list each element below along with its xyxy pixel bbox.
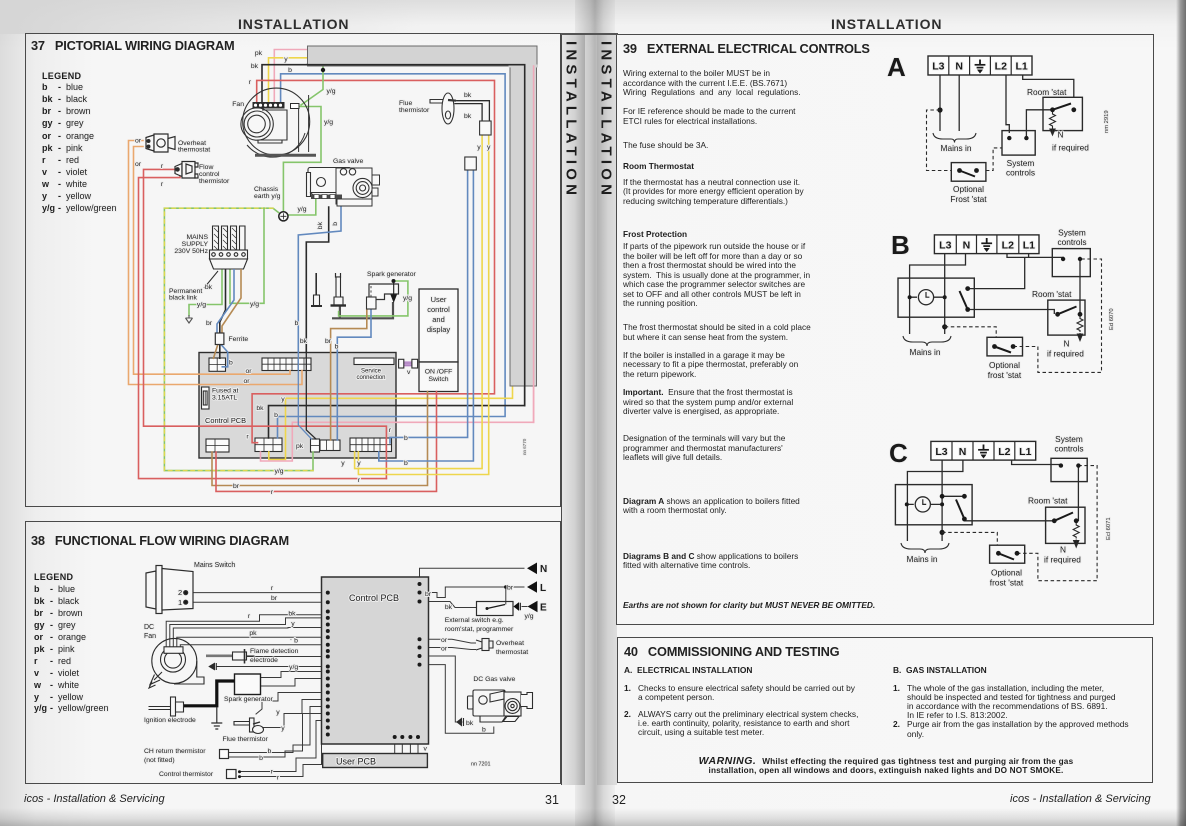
labels C xyxy=(907,434,1112,588)
svg-text:L: L xyxy=(540,583,546,594)
svg-text:bk: bk xyxy=(464,92,472,99)
svg-text:b: b xyxy=(34,584,40,594)
svg-text:-: - xyxy=(50,584,53,594)
svg-text:blue: blue xyxy=(66,82,83,92)
svg-text:y: y xyxy=(42,191,47,201)
svg-text:-: - xyxy=(58,82,61,92)
connector box yellow pair xyxy=(480,121,492,135)
wire r flow 2 xyxy=(139,173,387,479)
headers xyxy=(238,16,349,32)
svg-text:controls: controls xyxy=(1054,443,1083,453)
svg-text:v: v xyxy=(407,369,411,376)
wire spark out 1 xyxy=(261,672,328,678)
svg-text:w: w xyxy=(33,680,42,690)
wire switch to roomstat xyxy=(968,310,1055,315)
svg-text:-: - xyxy=(50,596,53,606)
svg-text:Optional: Optional xyxy=(953,184,984,194)
svg-text:bk: bk xyxy=(288,611,296,618)
wire b pair box2 xyxy=(390,170,468,443)
wire yg plug left to earth xyxy=(189,269,222,315)
svg-text:L3: L3 xyxy=(939,239,951,251)
svg-text:Mains Switch: Mains Switch xyxy=(194,562,235,569)
wire L3 down xyxy=(944,254,946,334)
permanent black link pointer xyxy=(204,271,218,288)
svg-text:Mains in: Mains in xyxy=(941,143,972,153)
svg-text:or: or xyxy=(34,632,43,642)
wire bk loop right xyxy=(269,66,525,438)
svg-text:N: N xyxy=(1064,339,1070,349)
svg-text:Switch: Switch xyxy=(428,376,448,383)
control thermistor 38 xyxy=(227,770,237,779)
gutter shadow between pages xyxy=(575,0,615,826)
svg-text:control: control xyxy=(199,171,220,178)
svg-text:pk: pk xyxy=(249,630,257,637)
connector c-top-left xyxy=(209,358,226,371)
svg-text:gy: gy xyxy=(42,118,53,128)
svg-text:L2: L2 xyxy=(995,61,1007,73)
dashed frost wires C xyxy=(942,466,1097,581)
wire L2 L1 stub xyxy=(1007,254,1029,258)
earth arrow left xyxy=(186,315,193,323)
svg-text:black: black xyxy=(66,94,88,104)
svg-text:or: or xyxy=(245,368,252,375)
connector c1 xyxy=(206,439,229,452)
svg-text:External switch e.g.: External switch e.g. xyxy=(445,617,504,624)
wire L3 down C xyxy=(941,460,943,541)
wire N left loop C xyxy=(907,460,963,541)
svg-text:b: b xyxy=(42,82,48,92)
svg-text:bk: bk xyxy=(464,113,472,120)
svg-text:L1: L1 xyxy=(1023,239,1035,251)
svg-text:-: - xyxy=(50,703,53,713)
svg-text:2: 2 xyxy=(178,588,182,597)
mains brace A xyxy=(933,133,976,143)
svg-text:B: B xyxy=(891,230,910,260)
ignition electrode A xyxy=(311,273,322,306)
wire r mains 2 xyxy=(187,592,328,594)
svg-text:Flue: Flue xyxy=(399,100,412,107)
wire or 2 xyxy=(420,648,477,650)
svg-text:Ed 6070: Ed 6070 xyxy=(1109,308,1115,330)
svg-text:y/g: y/g xyxy=(327,88,336,95)
wire br spark down xyxy=(331,309,367,440)
wire or 1 xyxy=(420,639,477,643)
flue thermistor 37 xyxy=(430,93,456,124)
svg-text:red: red xyxy=(66,155,79,165)
svg-text:System: System xyxy=(1007,158,1035,168)
wire br bottom loop xyxy=(212,392,428,486)
svg-text:b: b xyxy=(335,344,339,351)
wire b pcb inner xyxy=(298,352,311,439)
svg-text:nm 2919: nm 2919 xyxy=(1104,110,1110,133)
wire b fan xyxy=(180,645,327,648)
svg-text:y/g: y/g xyxy=(274,468,283,475)
svg-text:b: b xyxy=(259,755,263,762)
svg-text:y: y xyxy=(281,725,285,732)
svg-text:Optional: Optional xyxy=(991,568,1022,578)
svg-text:or: or xyxy=(135,161,142,168)
system controls box A xyxy=(1002,131,1035,156)
svg-text:-: - xyxy=(58,118,61,128)
svg-text:-: - xyxy=(50,692,53,702)
wire yg chassis to valve xyxy=(289,198,316,215)
wire L2 down xyxy=(1006,75,1009,133)
terminal strip B xyxy=(934,235,1039,254)
room stat box A xyxy=(1043,97,1082,135)
wire or overheat 1 xyxy=(129,141,303,385)
fan 37 xyxy=(241,88,316,157)
svg-text:-: - xyxy=(50,656,53,666)
svg-text:Fan: Fan xyxy=(232,101,244,108)
svg-text:230V 50Hz: 230V 50Hz xyxy=(174,248,208,255)
svg-text:b: b xyxy=(288,67,292,74)
svg-text:r: r xyxy=(34,656,38,666)
svg-text:y/g: y/g xyxy=(403,295,412,302)
svg-text:br: br xyxy=(233,483,240,490)
svg-text:-: - xyxy=(58,131,61,141)
svg-text:violet: violet xyxy=(66,167,88,177)
svg-text:br: br xyxy=(271,595,278,602)
wire br mains 1 xyxy=(187,601,328,603)
wire b fan-top-right xyxy=(278,74,506,438)
svg-text:Flue thermistor: Flue thermistor xyxy=(223,736,269,743)
svg-text:b: b xyxy=(482,727,486,734)
svg-text:orange: orange xyxy=(66,131,94,141)
user control and display box xyxy=(419,289,458,362)
svg-text:controls: controls xyxy=(1057,237,1086,247)
svg-text:y: y xyxy=(487,144,491,151)
svg-text:frost 'stat: frost 'stat xyxy=(990,578,1024,588)
wire L3 down xyxy=(939,75,941,131)
wire yg flame xyxy=(220,666,328,668)
svg-text:Optional: Optional xyxy=(989,360,1020,370)
svg-text:or: or xyxy=(441,646,448,653)
svg-text:L2: L2 xyxy=(1002,239,1014,251)
room stat box C xyxy=(1046,507,1085,547)
N L E arrows xyxy=(514,563,537,613)
overheat thermostat 38 xyxy=(476,639,493,651)
svg-text:yellow: yellow xyxy=(58,692,84,702)
right page sidebar band xyxy=(597,33,617,785)
wire flame detection xyxy=(248,656,328,658)
svg-text:-: - xyxy=(50,620,53,630)
wire bk flue 1 xyxy=(457,101,490,121)
svg-text:MAINS: MAINS xyxy=(186,234,208,241)
wire r ctherm 2 xyxy=(239,728,328,777)
optional frost stat box B xyxy=(987,337,1023,356)
svg-text:DC Gas valve: DC Gas valve xyxy=(473,676,515,683)
mains brace B xyxy=(903,336,951,346)
svg-text:N: N xyxy=(955,61,963,73)
svg-text:room'stat, programmer: room'stat, programmer xyxy=(445,626,514,633)
wire N down brace xyxy=(909,297,911,334)
svg-text:b: b xyxy=(332,222,339,226)
svg-text:y: y xyxy=(281,396,285,403)
svg-text:LEGEND: LEGEND xyxy=(42,71,82,81)
svg-text:y: y xyxy=(341,460,345,467)
optional frost stat box C xyxy=(990,545,1025,563)
svg-text:E: E xyxy=(540,603,547,614)
svg-text:bk: bk xyxy=(445,604,453,611)
wire stub to switch xyxy=(968,257,1025,288)
wire switch top to L3 C xyxy=(942,495,964,497)
programmer box B xyxy=(898,278,974,317)
top-left corner shade xyxy=(0,0,420,34)
wire pk over band xyxy=(533,66,535,422)
svg-text:b: b xyxy=(268,748,272,755)
wire bk valve xyxy=(420,656,463,722)
svg-text:y: y xyxy=(284,56,288,63)
left page sidebar band xyxy=(561,33,585,785)
labels B xyxy=(910,228,1115,381)
svg-text:Flow: Flow xyxy=(199,164,213,171)
wire r ctherm 1 xyxy=(239,721,328,772)
svg-text:r: r xyxy=(42,155,46,165)
svg-text:y/g: y/g xyxy=(298,206,307,213)
svg-text:System: System xyxy=(1055,434,1083,444)
wire y pair flue xyxy=(355,135,483,469)
spark generator 38 xyxy=(171,674,261,706)
svg-text:b: b xyxy=(229,360,233,367)
svg-text:Overheat: Overheat xyxy=(496,640,524,647)
wire sysctl down roomstat C xyxy=(1077,466,1079,521)
svg-text:L2: L2 xyxy=(998,446,1010,458)
svg-text:-: - xyxy=(58,94,61,104)
svg-text:blue: blue xyxy=(58,584,75,594)
junction dot A xyxy=(937,107,942,112)
gas valve 37 xyxy=(307,168,380,207)
labels 38 xyxy=(144,562,547,782)
svg-text:thermostat: thermostat xyxy=(178,147,210,154)
svg-text:System: System xyxy=(1058,228,1086,238)
svg-text:v: v xyxy=(34,668,39,678)
svg-text:pk: pk xyxy=(296,443,304,450)
svg-text:or: or xyxy=(135,138,142,145)
svg-text:br: br xyxy=(34,608,43,618)
svg-text:Room 'stat: Room 'stat xyxy=(1032,289,1072,299)
svg-text:bk: bk xyxy=(317,221,324,229)
earth symbol 38 xyxy=(211,707,222,729)
svg-text:control: control xyxy=(427,305,450,314)
svg-text:Fan: Fan xyxy=(144,633,156,640)
svg-text:red: red xyxy=(58,656,71,666)
svg-text:pk: pk xyxy=(42,143,53,153)
wire stub to sysctl xyxy=(1029,257,1064,259)
earth symbol in strip B xyxy=(981,238,992,252)
svg-text:connection: connection xyxy=(356,375,385,381)
wire y loop right xyxy=(269,386,513,460)
svg-text:-: - xyxy=(50,680,53,690)
svg-text:Mains in: Mains in xyxy=(907,554,938,564)
svg-text:violet: violet xyxy=(58,668,80,678)
wire y fan-top xyxy=(269,58,309,102)
connector c2 xyxy=(255,438,282,452)
svg-text:-: - xyxy=(58,106,61,116)
wire b chret 1 xyxy=(229,707,328,753)
wire bk to switch xyxy=(420,602,477,608)
wire b valve xyxy=(420,665,494,734)
chassis earth symbol xyxy=(279,212,288,221)
connector c-top-long xyxy=(262,358,311,371)
svg-text:grey: grey xyxy=(58,620,76,630)
svg-text:-: - xyxy=(58,179,61,189)
svg-text:y/g: y/g xyxy=(197,302,206,309)
wire bk pcb inner xyxy=(306,352,316,439)
svg-text:A: A xyxy=(887,52,906,82)
svg-text:Spark generator: Spark generator xyxy=(224,696,273,703)
programmer box C xyxy=(895,485,972,525)
wire spark out 2 xyxy=(261,679,328,687)
wire y flue 1 xyxy=(256,693,328,715)
svg-text:-: - xyxy=(58,155,61,165)
svg-text:bk: bk xyxy=(42,94,53,104)
svg-text:User: User xyxy=(431,295,447,304)
svg-text:Fused at: Fused at xyxy=(212,388,239,395)
wire bk over band xyxy=(307,65,525,406)
wires C xyxy=(907,460,1078,541)
svg-text:SUPPLY: SUPPLY xyxy=(182,241,209,248)
svg-text:-: - xyxy=(58,143,61,153)
wire yg chassis left long xyxy=(164,208,313,470)
wire v verticals xyxy=(395,737,418,758)
svg-text:bk: bk xyxy=(300,338,308,345)
svg-text:Ignition electrode: Ignition electrode xyxy=(144,717,196,724)
ferrite xyxy=(215,333,224,345)
svg-text:y: y xyxy=(291,621,295,628)
wire b spark down xyxy=(337,309,371,440)
yg arrow symbol 38 xyxy=(209,663,220,670)
external switch box 38 xyxy=(477,602,514,616)
svg-text:-: - xyxy=(58,203,61,213)
bottom shade xyxy=(0,808,1186,826)
wire E xyxy=(522,606,527,608)
fuse xyxy=(202,387,210,409)
flue thermistor 38 xyxy=(234,718,264,734)
connector c4 xyxy=(350,438,392,452)
wire y fan xyxy=(173,628,327,649)
labels A xyxy=(941,87,1110,204)
svg-text:if required: if required xyxy=(1052,143,1089,153)
gray chassis bar xyxy=(308,46,539,386)
svg-text:yellow/green: yellow/green xyxy=(66,203,117,213)
svg-text:r: r xyxy=(161,181,164,188)
wire sysctl to roomstat xyxy=(1026,110,1052,138)
plug wires to ferrite xyxy=(213,269,241,367)
wire yg spark xyxy=(339,281,408,316)
mains switch 38 xyxy=(146,566,193,614)
svg-text:or: or xyxy=(441,637,448,644)
svg-text:grey: grey xyxy=(66,118,84,128)
dashed frost wires A xyxy=(927,110,1003,171)
svg-text:bk: bk xyxy=(466,720,474,727)
svg-text:if required: if required xyxy=(1044,555,1081,565)
svg-text:r: r xyxy=(271,489,274,496)
svg-text:nn 6770: nn 6770 xyxy=(522,438,527,455)
svg-text:y/g: y/g xyxy=(524,613,533,620)
svg-text:thermostat: thermostat xyxy=(496,649,528,656)
svg-text:r: r xyxy=(271,585,274,592)
svg-text:LEGEND: LEGEND xyxy=(34,572,74,582)
svg-text:b: b xyxy=(295,320,299,327)
svg-text:bk: bk xyxy=(34,596,45,606)
wire y flue 2 xyxy=(262,700,328,728)
wire sysctl down roomstat xyxy=(1079,259,1081,314)
wire r fan-top-right xyxy=(252,80,494,442)
svg-text:Chassis: Chassis xyxy=(254,186,279,193)
svg-text:(not fitted): (not fitted) xyxy=(144,757,175,764)
violet connector xyxy=(404,361,412,366)
dashed frost wires B xyxy=(945,259,1102,372)
svg-text:y: y xyxy=(276,709,280,716)
svg-text:controls: controls xyxy=(1006,168,1035,178)
svg-text:Ecl 6071: Ecl 6071 xyxy=(1106,517,1112,540)
svg-text:earth y/g: earth y/g xyxy=(254,193,281,200)
legend box37 xyxy=(41,71,117,213)
connector c3b xyxy=(320,440,340,451)
svg-text:yellow: yellow xyxy=(66,191,92,201)
wire b to N xyxy=(420,568,525,584)
ch return thermistor 38 xyxy=(220,750,229,759)
footers xyxy=(24,793,165,805)
svg-text:electrode: electrode xyxy=(250,657,278,664)
control pcb 38 xyxy=(322,577,429,744)
svg-text:-: - xyxy=(50,608,53,618)
wire yg fan diag to junction xyxy=(301,66,323,105)
control pcb box xyxy=(199,353,396,459)
svg-text:black link: black link xyxy=(169,295,198,302)
svg-text:brown: brown xyxy=(66,106,91,116)
service connection slot xyxy=(354,358,394,365)
pcb dots left xyxy=(326,591,330,737)
wire r fan xyxy=(166,615,328,648)
right page edge dark strip xyxy=(1176,0,1186,826)
svg-text:br: br xyxy=(425,591,432,598)
optional frost stat box A xyxy=(951,163,986,182)
svg-text:r: r xyxy=(277,775,280,782)
svg-text:Frost 'stat: Frost 'stat xyxy=(950,194,987,204)
svg-text:1: 1 xyxy=(178,598,182,607)
svg-text:r: r xyxy=(249,79,252,86)
svg-text:3.15ATL: 3.15ATL xyxy=(212,395,237,402)
wire L2 to sysctl C xyxy=(1012,460,1061,466)
wire pk loop right xyxy=(261,66,534,461)
svg-text:y/g: y/g xyxy=(250,301,259,308)
svg-text:pink: pink xyxy=(66,143,83,153)
svg-text:ON /OFF: ON /OFF xyxy=(425,369,453,376)
wire bk fan xyxy=(170,618,328,648)
svg-text:v: v xyxy=(424,746,428,753)
wire r flow 1 xyxy=(144,169,387,478)
junction dot yg xyxy=(321,68,325,72)
connector c3 xyxy=(311,439,320,452)
svg-text:thermistor: thermistor xyxy=(399,107,430,114)
svg-text:-: - xyxy=(58,191,61,201)
svg-text:yellow/green: yellow/green xyxy=(58,703,109,713)
mains supply plug xyxy=(210,226,248,269)
svg-text:v: v xyxy=(42,167,47,177)
wire b valve down xyxy=(298,207,341,352)
legend box38 xyxy=(33,572,109,713)
svg-text:b: b xyxy=(294,638,298,645)
svg-text:gy: gy xyxy=(34,620,45,630)
svg-text:L1: L1 xyxy=(1015,61,1027,73)
svg-text:thermistor: thermistor xyxy=(199,178,230,185)
wire pk fan-top xyxy=(274,50,308,103)
svg-text:-: - xyxy=(58,167,61,177)
svg-text:Service: Service xyxy=(361,369,382,375)
svg-text:bk: bk xyxy=(256,405,264,412)
ignition electrode B xyxy=(331,273,347,306)
